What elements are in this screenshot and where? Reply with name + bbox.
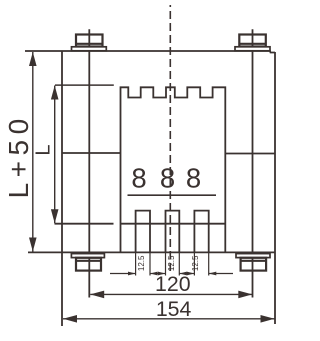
12.5 dimension arrow lines: [110, 273, 233, 275]
svg-text:12.5: 12.5: [167, 255, 176, 271]
left bracket internal line: [62, 152, 120, 154]
tooth edge extension lines for 12.5 dims: [136, 253, 209, 276]
dimension line L+50: [32, 52, 34, 252]
terminal tooth 1: [136, 211, 150, 252]
svg-text:8: 8: [160, 163, 175, 194]
top plate line: [25, 51, 275, 53]
arrowheads: [29, 52, 275, 323]
washer top-left: [72, 47, 107, 51]
washer top-right: [235, 47, 270, 51]
bottom plate line: [28, 251, 275, 253]
arrow L+50 top: [29, 52, 37, 66]
display digits 888: [131, 163, 201, 194]
terminal tooth 2: [166, 211, 180, 252]
bolt head top-right: [239, 35, 265, 47]
bolt head top-left: [76, 35, 103, 47]
lower plate line (L bottom reference): [55, 223, 114, 225]
arrow 120 right: [238, 291, 252, 299]
arrow L+50 bottom: [29, 238, 37, 252]
svg-text:120: 120: [155, 272, 191, 296]
svg-text:8: 8: [186, 163, 201, 194]
display underline: [128, 194, 217, 196]
arrow 154 left: [63, 315, 77, 323]
dimension line 154: [63, 318, 275, 320]
bolt head bottom-right: [241, 258, 267, 271]
svg-text:12.5: 12.5: [191, 255, 200, 271]
svg-text:154: 154: [156, 297, 192, 321]
right bracket internal line: [225, 153, 275, 155]
body outline with castellated top: [121, 87, 226, 252]
bolt head bottom-left: [76, 258, 101, 271]
washer bottom-right: [236, 254, 270, 258]
svg-text:L+50: L+50: [3, 113, 34, 198]
left stud rod / 120 left extension: [88, 29, 90, 297]
centerline (dashed vertical axis): [169, 5, 171, 272]
washer bottom-left: [71, 254, 104, 258]
dimension line 120: [90, 293, 252, 295]
arrow L bottom: [51, 209, 59, 223]
svg-text:12.5: 12.5: [137, 255, 146, 271]
arrow L top: [51, 86, 59, 100]
arrows 12.5 dims: [128, 272, 136, 276]
right stud rod / 120 right extension: [252, 29, 254, 297]
left outer edge / 154 left extension: [61, 51, 63, 326]
svg-text:8: 8: [131, 163, 146, 194]
right outer edge / 154 right extension: [274, 52, 276, 324]
terminal tooth 3: [194, 211, 208, 252]
svg-text:L: L: [33, 144, 55, 155]
arrow 154 right: [261, 315, 275, 323]
upper step extension line (L top reference): [55, 84, 114, 86]
labels 12.5: [137, 255, 200, 271]
arrow 120 left: [90, 291, 104, 299]
dimension line L: [54, 86, 56, 224]
